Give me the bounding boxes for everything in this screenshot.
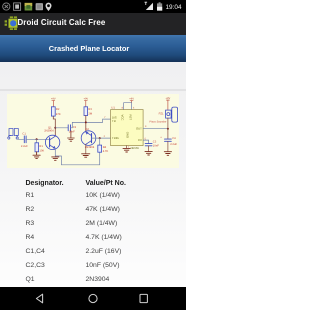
power +9V P2 (over R3) — [84, 101, 87, 107]
capacitor C2 — [68, 125, 70, 131]
svg-text:Q2: Q2 — [85, 128, 89, 131]
power +9V P1 (over R2) — [52, 101, 55, 107]
svg-text:C4: C4 — [172, 138, 176, 141]
svg-text:4.7K: 4.7K — [103, 151, 109, 154]
status bar — [0, 0, 186, 13]
svg-text:2M: 2M — [88, 113, 92, 116]
svg-text:R1: R1 — [39, 145, 43, 148]
ground G0 (under Q1 emitter) — [52, 157, 59, 160]
battery icon — [157, 2, 162, 10]
ground G5 (under C3) — [145, 152, 152, 155]
power +9V P4 (over piezo) — [166, 100, 169, 110]
junction J2 — [54, 127, 56, 129]
svg-text:+9V: +9V — [129, 98, 134, 101]
wire C1 to Q1 base — [26, 139, 49, 141]
wire mic to C1 — [17, 138, 23, 140]
svg-text:4: 4 — [133, 107, 135, 110]
ground G6 (under C4) — [164, 152, 171, 156]
svg-text:TRIG: TRIG — [112, 137, 119, 141]
wire R3 down to Q2 collector — [85, 116, 87, 132]
svg-text:+9V: +9V — [51, 98, 56, 101]
microphone MK1 — [8, 129, 19, 140]
wire U1 GND pin to ground — [126, 146, 128, 149]
ground G3 (under Q2) — [82, 154, 90, 157]
app icon (green chip with blue dot) — [5, 16, 18, 30]
wire C2 up to DIS net — [71, 119, 111, 128]
wire C4 to ground — [167, 142, 169, 152]
svg-text:C1: C1 — [22, 133, 26, 136]
svg-text:2.2uF: 2.2uF — [21, 145, 28, 148]
wire OUT to piezo rail — [143, 128, 168, 130]
schematic canvas — [7, 94, 179, 167]
svg-text:R3: R3 — [88, 108, 92, 111]
svg-text:RST: RST — [129, 115, 133, 121]
svg-text:CV: CV — [138, 139, 142, 143]
svg-text:19:04: 19:04 — [166, 4, 182, 11]
junction J3 — [85, 122, 87, 124]
svg-text:47K: 47K — [56, 113, 61, 116]
svg-text:3: 3 — [145, 126, 147, 129]
svg-text:+9V: +9V — [166, 98, 171, 101]
app title bar — [0, 13, 186, 35]
svg-text:2.2uF: 2.2uF — [170, 143, 177, 146]
wire piezo down to C4 — [167, 118, 169, 139]
svg-text:TR: TR — [112, 119, 116, 123]
wire CV pin to C3 — [143, 140, 149, 143]
notif icon 5 (location pin) — [46, 3, 52, 11]
wire VCC/RST top — [124, 103, 132, 110]
svg-text:GND: GND — [126, 132, 130, 138]
svg-text:R2: R2 — [56, 108, 60, 111]
notif icon 4 (grey rect) — [36, 3, 43, 10]
resistor R3 — [84, 107, 88, 116]
wire Q2 emitter to ground — [85, 145, 87, 154]
ground G4 (under U1) — [123, 149, 130, 153]
svg-text:10nF: 10nF — [69, 131, 75, 134]
signal icon — [146, 3, 153, 10]
svg-text:R4: R4 — [103, 147, 107, 150]
wire C3 to ground — [148, 146, 150, 152]
svg-text:C3: C3 — [153, 141, 157, 144]
timer IC U1 NE555 — [111, 110, 144, 146]
svg-text:C2: C2 — [73, 126, 77, 129]
power +9V P3 (over U1) — [130, 101, 133, 103]
svg-text:+: + — [160, 137, 162, 140]
notif icon 1 (circle) — [3, 3, 10, 10]
back button — [36, 294, 42, 303]
svg-text:Piezo Sounder: Piezo Sounder — [149, 121, 166, 124]
svg-text:U1: U1 — [111, 107, 115, 110]
parts table — [26, 180, 64, 187]
svg-text:2N3904: 2N3904 — [85, 146, 95, 149]
ground G1 (under R1) — [33, 152, 40, 159]
navigation bar — [0, 287, 186, 310]
resistor R1 — [36, 140, 38, 144]
capacitor C3 — [145, 144, 152, 146]
junction J4 — [99, 137, 101, 139]
ground G2 (below C2) — [68, 131, 75, 141]
recents button — [140, 294, 147, 302]
resistor R4 — [99, 138, 101, 145]
wire Q2 base to TR pin — [92, 137, 111, 139]
svg-text:NE555: NE555 — [131, 147, 140, 150]
notif icon 3 (app, colored) — [25, 3, 33, 11]
resistor R2 — [51, 107, 55, 116]
svg-text:OUT: OUT — [136, 127, 142, 131]
content background — [0, 62, 186, 287]
svg-text:PZ1: PZ1 — [159, 113, 164, 116]
junction J1 — [36, 139, 38, 141]
transistor Q2 2N3904 — [81, 131, 96, 146]
svg-text:VCC: VCC — [121, 115, 125, 121]
wire J2 to C2 — [55, 127, 67, 129]
section banner — [0, 35, 186, 62]
junction J5 — [167, 128, 169, 130]
capacitor C1 — [24, 136, 26, 143]
wire R2 to Q1 collector rail — [53, 116, 55, 136]
svg-text:10nF: 10nF — [153, 145, 159, 148]
svg-text:2N3904: 2N3904 — [44, 130, 54, 133]
svg-text:+9V: +9V — [83, 98, 88, 101]
notif icon 2 (screenshot) — [14, 3, 21, 10]
capacitor C4 — [165, 139, 172, 141]
svg-text:10K: 10K — [39, 150, 44, 153]
wire Q1 emitter to bottom loop — [55, 149, 99, 165]
transistor Q1 2N3904 — [45, 136, 59, 150]
home button — [89, 294, 97, 302]
piezo sounder PZ1 — [166, 107, 178, 122]
